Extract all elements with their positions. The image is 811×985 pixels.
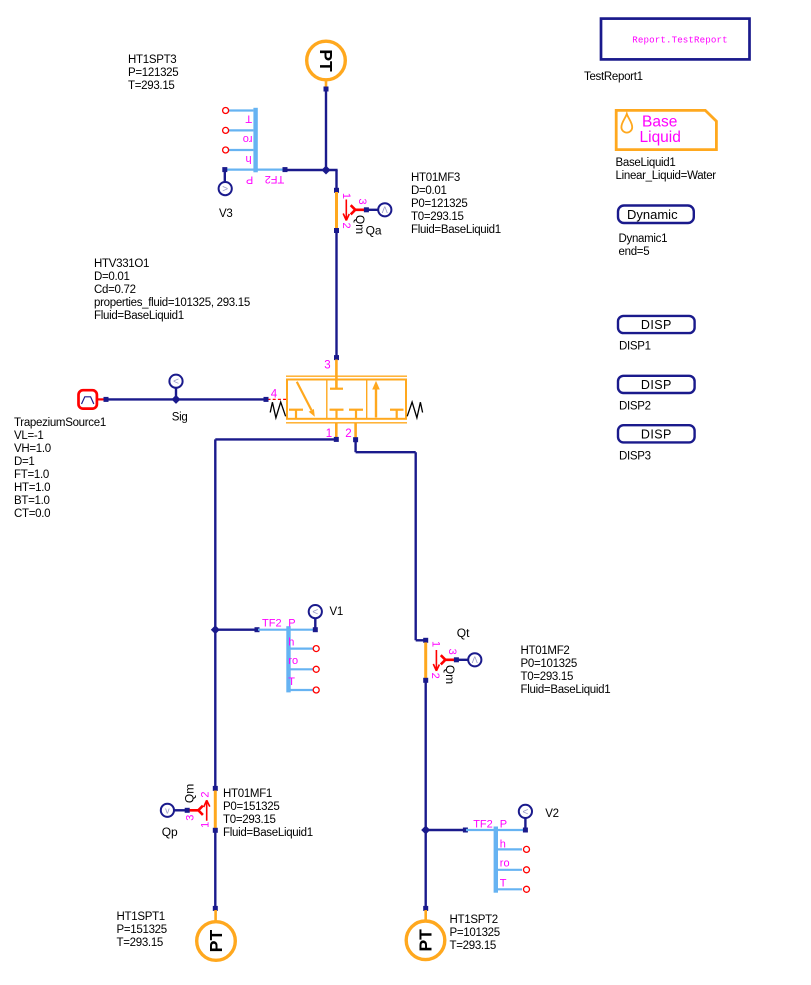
- node: [283, 167, 288, 172]
- svg-text:1: 1: [340, 193, 352, 199]
- node junction: [421, 826, 430, 835]
- svg-text:Report.TestReport: Report.TestReport: [632, 35, 727, 46]
- node junction: [211, 625, 220, 634]
- svg-text:T=293.15: T=293.15: [128, 80, 175, 92]
- svg-text:Fluid=BaseLiquid1: Fluid=BaseLiquid1: [94, 310, 184, 322]
- svg-text:ro: ro: [243, 133, 253, 145]
- wire: [456, 659, 468, 661]
- svg-text:T0=293.15: T0=293.15: [411, 211, 464, 223]
- svg-text:DISP: DISP: [641, 378, 672, 392]
- svg-text:DISP1: DISP1: [619, 340, 651, 352]
- svg-text:3: 3: [446, 649, 458, 655]
- svg-text:2: 2: [429, 673, 441, 679]
- wire: [98, 398, 105, 400]
- flow meter HT01MF3 body: [334, 188, 339, 233]
- fluid component BaseLiquid1: [616, 110, 716, 149]
- svg-text:T=293.15: T=293.15: [450, 940, 497, 952]
- svg-text:HTV331O1: HTV331O1: [94, 258, 149, 270]
- wire: [213, 832, 218, 911]
- label pins HT01MF2: [429, 641, 458, 679]
- svg-text:Fluid=BaseLiquid1: Fluid=BaseLiquid1: [521, 684, 611, 696]
- svg-text:VH=1.0: VH=1.0: [14, 443, 51, 455]
- wire: [175, 388, 177, 399]
- svg-text:1: 1: [430, 641, 442, 647]
- svg-text:HT01MF2: HT01MF2: [521, 645, 570, 657]
- svg-text:BaseLiquid1: BaseLiquid1: [616, 157, 676, 169]
- pressure-temperature gauge HT1SPT3: [307, 41, 346, 80]
- source TrapeziumSource1: [79, 390, 97, 408]
- node: [454, 657, 459, 662]
- svg-text:HT=1.0: HT=1.0: [14, 482, 50, 494]
- svg-text:Λ: Λ: [472, 655, 478, 665]
- sensor Qa: [378, 203, 391, 216]
- label Qp: [162, 825, 178, 839]
- svg-text:Dynamic: Dynamic: [627, 207, 678, 222]
- svg-text:P: P: [246, 173, 253, 185]
- wire: [524, 818, 526, 830]
- label Qm: [353, 215, 367, 234]
- wire: [215, 439, 336, 788]
- node junction: [172, 395, 181, 404]
- simulation block Dynamic1: [618, 206, 694, 224]
- svg-text:PT: PT: [416, 929, 436, 952]
- svg-text:D=1: D=1: [14, 456, 35, 468]
- flow meter HT01MF2 body: [423, 638, 428, 683]
- wire: [366, 209, 378, 211]
- label valve pins: [271, 359, 352, 440]
- label HT01MF1 parameters: [223, 788, 313, 839]
- svg-text:P=151325: P=151325: [117, 924, 167, 936]
- svg-text:1: 1: [200, 822, 212, 828]
- node: [222, 167, 227, 172]
- label BaseLiquid1 parameters: [616, 157, 717, 182]
- svg-text:P: P: [288, 617, 295, 629]
- node: [255, 627, 260, 632]
- sensor Sig: [169, 375, 182, 388]
- svg-text:V3: V3: [219, 208, 232, 220]
- label TF2 V3 pins: [243, 112, 285, 185]
- svg-text:Liquid: Liquid: [640, 129, 681, 146]
- svg-text:TF2: TF2: [265, 173, 285, 185]
- svg-text:HT1SPT3: HT1SPT3: [128, 54, 176, 66]
- label HT01MF3 parameters: [411, 172, 501, 236]
- valve pin 2 stub: [353, 423, 358, 442]
- svg-text:Fluid=BaseLiquid1: Fluid=BaseLiquid1: [411, 224, 501, 236]
- svg-text:4: 4: [271, 388, 278, 400]
- svg-text:P=101325: P=101325: [450, 927, 500, 939]
- node junction: [322, 166, 331, 175]
- label V3: [219, 208, 232, 220]
- pressure-temperature gauge HT1SPT1: [197, 922, 236, 961]
- label Dynamic1 parameters: [619, 233, 668, 258]
- display block DISP3: [618, 425, 695, 442]
- svg-text:Qm: Qm: [443, 665, 457, 684]
- svg-text:T: T: [245, 112, 252, 124]
- wire: [426, 829, 466, 831]
- svg-text:P0=121325: P0=121325: [411, 198, 467, 210]
- svg-text:h: h: [500, 839, 506, 851]
- label DISP2: [619, 400, 651, 412]
- sensor tap Y (HT01MF3): [351, 205, 365, 214]
- svg-text:ro: ro: [288, 655, 298, 667]
- flow arrow Qm (HT01MF2): [433, 650, 439, 671]
- svg-text:Qm: Qm: [182, 784, 196, 803]
- svg-text:P0=101325: P0=101325: [521, 658, 577, 670]
- svg-text:v: v: [165, 806, 170, 816]
- sensor Qt: [468, 653, 481, 666]
- sensor V3: [219, 182, 232, 195]
- node: [264, 397, 269, 402]
- wire: [215, 629, 257, 631]
- label TF2 V1 pins: [262, 617, 298, 688]
- svg-text:V2: V2: [545, 808, 558, 820]
- wire: [356, 440, 424, 641]
- svg-text:TrapeziumSource1: TrapeziumSource1: [14, 417, 106, 429]
- spring left: [270, 402, 285, 418]
- svg-text:PT: PT: [316, 49, 336, 72]
- svg-text:end=5: end=5: [619, 246, 650, 258]
- svg-text:T=293.15: T=293.15: [117, 937, 164, 949]
- node: [334, 355, 339, 360]
- wire: [285, 170, 338, 191]
- svg-text:Λ: Λ: [382, 205, 388, 215]
- svg-text:DISP: DISP: [641, 318, 672, 332]
- svg-text:2: 2: [200, 791, 212, 797]
- wire: [324, 80, 329, 92]
- svg-text:CT=0.0: CT=0.0: [14, 508, 50, 520]
- svg-text:FT=1.0: FT=1.0: [14, 469, 49, 481]
- node: [185, 808, 190, 813]
- svg-text:T: T: [500, 877, 507, 889]
- svg-text:TF2: TF2: [262, 617, 282, 629]
- svg-text:TestReport1: TestReport1: [584, 71, 643, 83]
- wire: [325, 89, 327, 170]
- svg-text:VL=-1: VL=-1: [14, 430, 44, 442]
- node: [313, 627, 318, 632]
- svg-text:TF2: TF2: [473, 819, 493, 831]
- node: [463, 828, 468, 833]
- transducer TF2 (V3) body: [223, 108, 284, 173]
- label TrapeziumSource1 parameters: [14, 417, 106, 520]
- display block DISP2: [618, 376, 695, 393]
- label V2: [545, 808, 558, 820]
- svg-text:<: <: [312, 607, 318, 618]
- svg-text:P0=151325: P0=151325: [223, 801, 279, 813]
- sensor Qp: [161, 804, 174, 817]
- svg-text:BT=1.0: BT=1.0: [14, 495, 50, 507]
- label TestReport1: [584, 71, 643, 83]
- svg-text:Dynamic1: Dynamic1: [619, 233, 668, 245]
- label pins HT01MF1: [185, 791, 212, 827]
- wire: [335, 233, 337, 358]
- label TF2 V2 pins: [473, 819, 509, 890]
- svg-text:2: 2: [345, 428, 351, 440]
- svg-text:3: 3: [324, 359, 330, 371]
- label HT1SPT1 parameters: [117, 911, 167, 949]
- wire: [423, 906, 428, 921]
- svg-text:Qt: Qt: [457, 626, 470, 640]
- svg-text:2: 2: [340, 223, 352, 229]
- svg-text:Sig: Sig: [172, 412, 188, 424]
- svg-text:T: T: [288, 676, 295, 688]
- svg-text:HT1SPT1: HT1SPT1: [117, 911, 165, 923]
- svg-text:HT01MF3: HT01MF3: [411, 172, 460, 184]
- svg-text:V1: V1: [330, 606, 343, 618]
- svg-text:DISP: DISP: [641, 428, 672, 442]
- svg-text:D=0.01: D=0.01: [94, 271, 130, 283]
- label pins HT01MF3: [340, 193, 368, 229]
- report block TestReport1: [601, 19, 750, 60]
- node: [104, 397, 109, 402]
- sensor V2: [519, 805, 532, 818]
- label Qt: [457, 626, 470, 640]
- label Qm: [443, 665, 457, 684]
- svg-text:h: h: [246, 153, 252, 165]
- svg-text:HT1SPT2: HT1SPT2: [450, 914, 498, 926]
- svg-text:PT: PT: [206, 930, 226, 953]
- pressure-temperature gauge HT1SPT2: [406, 921, 445, 960]
- wire: [174, 809, 187, 811]
- node: [364, 207, 369, 212]
- flow arrow Qm (HT01MF1): [204, 800, 210, 821]
- svg-text:DISP3: DISP3: [619, 451, 651, 463]
- svg-text:Fluid=BaseLiquid1: Fluid=BaseLiquid1: [223, 827, 313, 839]
- svg-text:Cd=0.72: Cd=0.72: [94, 284, 136, 296]
- svg-text:DISP2: DISP2: [619, 400, 651, 412]
- svg-text:h: h: [288, 636, 294, 648]
- svg-text:Qp: Qp: [162, 825, 178, 839]
- label DISP1: [619, 340, 651, 352]
- svg-text:3: 3: [356, 199, 368, 205]
- svg-text:ro: ro: [500, 858, 510, 870]
- label HTV331O1 parameters: [94, 258, 250, 322]
- wire: [425, 682, 427, 908]
- valve pin 4 dashed link: [268, 398, 287, 400]
- label Qm: [182, 784, 196, 803]
- label Qa: [366, 223, 382, 237]
- sensor V1: [309, 605, 322, 618]
- sensor tap Y (HT01MF2): [441, 655, 454, 664]
- label DISP3: [619, 451, 651, 463]
- label HT1SPT2 parameters: [450, 914, 500, 952]
- valve HTV331O1 body: [286, 360, 407, 423]
- wire: [214, 910, 217, 921]
- flow meter HT01MF1 body: [213, 786, 218, 833]
- sensor tap Y (HT01MF1): [189, 806, 203, 815]
- label Sig: [172, 412, 188, 424]
- label V1: [330, 606, 343, 618]
- wire: [314, 618, 316, 630]
- flow arrow Qm (HT01MF3): [343, 200, 349, 221]
- svg-text:T0=293.15: T0=293.15: [223, 814, 276, 826]
- display block DISP1: [618, 316, 695, 333]
- svg-text:Linear_Liquid=Water: Linear_Liquid=Water: [616, 170, 717, 182]
- svg-text:3: 3: [185, 815, 197, 821]
- transducer TF2 (V2) body: [466, 827, 530, 893]
- svg-text:P=121325: P=121325: [128, 67, 178, 79]
- transducer TF2 (V1) body: [258, 626, 319, 693]
- label HT1SPT3 parameters: [128, 54, 178, 92]
- svg-text:P: P: [500, 819, 507, 831]
- svg-text:>: >: [222, 184, 228, 195]
- wire: [224, 170, 226, 182]
- node: [523, 828, 528, 833]
- svg-text:Qa: Qa: [366, 223, 382, 237]
- spring right: [407, 402, 422, 418]
- svg-text:<: <: [173, 377, 179, 388]
- svg-text:D=0.01: D=0.01: [411, 185, 447, 197]
- svg-text:properties_fluid=101325, 293.1: properties_fluid=101325, 293.15: [94, 297, 250, 309]
- svg-text:HT01MF1: HT01MF1: [223, 788, 272, 800]
- label HT01MF2 parameters: [521, 645, 611, 696]
- svg-text:<: <: [522, 807, 528, 818]
- svg-text:T0=293.15: T0=293.15: [521, 671, 574, 683]
- wire: [106, 398, 266, 400]
- valve pin 1 stub: [334, 423, 339, 442]
